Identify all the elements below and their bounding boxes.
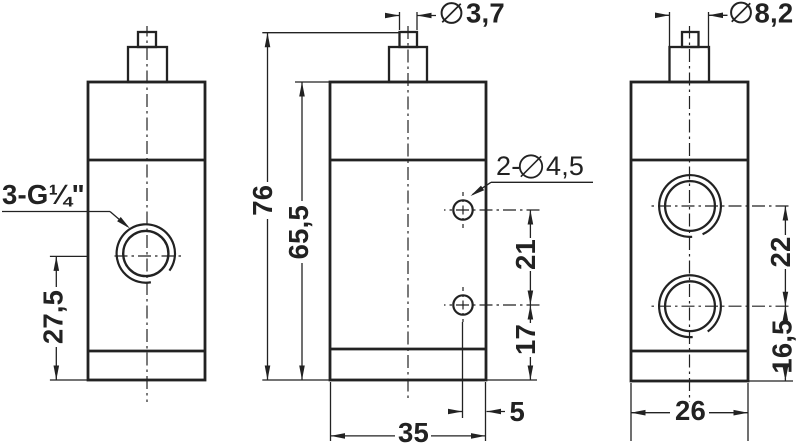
svg-text:76: 76: [247, 185, 278, 216]
left view lower section line: [88, 350, 205, 353]
middle view stem tip box: [400, 32, 418, 47]
middle view upper section line: [330, 159, 486, 162]
dimension line 26: [631, 412, 670, 414]
dimension line 16,5 upper stub: [784, 306, 786, 313]
svg-text:3-G¼": 3-G¼": [2, 179, 85, 210]
svg-text:5: 5: [510, 396, 526, 427]
svg-text:17: 17: [510, 324, 541, 355]
leader underline for 2-diameter 4,5: [491, 181, 593, 183]
leader line to upper hole: [473, 182, 492, 194]
arrowheads 21: [528, 210, 534, 225]
left view stem tip box: [138, 32, 156, 47]
leader arrowhead: [117, 217, 130, 229]
upper hole vertical centerline: [462, 192, 464, 228]
dimension line diameter 3,7 left part: [386, 15, 400, 17]
lower hole horizontal centerline: [444, 304, 540, 306]
leader arrowhead at upper hole: [471, 186, 485, 196]
arrowheads 26: [631, 410, 646, 416]
right view stem tip box: [682, 32, 699, 47]
right view stem lower box: [670, 47, 710, 82]
svg-text:35: 35: [398, 417, 429, 446]
dimension line diameter 8,2 left part: [656, 14, 670, 16]
extension line below lower hole for 5: [462, 322, 464, 418]
lower port inner circle: [665, 281, 715, 331]
svg-text:4,5: 4,5: [546, 151, 584, 181]
arrowheads 17: [528, 305, 534, 320]
left view upper section line: [88, 159, 205, 162]
svg-text:21: 21: [510, 239, 541, 270]
dimension line 65,5: [301, 82, 303, 201]
dimension line 27,5: [55, 256, 57, 287]
dimension line 21: [529, 210, 531, 238]
leader underline for 3-G1/4: [2, 211, 110, 213]
left view vertical centerline: [146, 26, 148, 402]
extension lines for diameter 8,2: [669, 12, 671, 50]
extension of body bottom to the right: [486, 379, 537, 381]
left view port inner circle: [123, 231, 168, 276]
lower hole vertical centerline: [462, 287, 464, 322]
svg-text:26: 26: [675, 395, 706, 426]
left view port thread arc: [117, 224, 175, 282]
mounting hole lower circle: [453, 295, 472, 314]
left view stem lower box: [128, 47, 167, 82]
leader line to port: [110, 212, 128, 227]
lower port thread arc: [659, 275, 721, 337]
diameter symbol of 8,2: [731, 3, 751, 23]
svg-text:65,5: 65,5: [283, 205, 314, 259]
arrowheads 5: [448, 409, 463, 415]
svg-text:22: 22: [765, 237, 796, 268]
upper port inner circle: [665, 181, 715, 231]
right view vertical centerline: [689, 26, 691, 402]
extension line at stem tip top for 76: [262, 32, 399, 34]
svg-text:8,2: 8,2: [755, 0, 794, 28]
right view upper section line: [631, 159, 748, 162]
middle view vertical centerline: [407, 26, 409, 400]
svg-text:2-: 2-: [496, 151, 520, 181]
arrowheads 76: [265, 33, 271, 48]
extension line left body edge down for 35: [330, 382, 332, 441]
dimension line diameter 3,7 right part: [417, 15, 436, 17]
extension line right body edge down for 35: [485, 382, 487, 441]
middle view stem lower box: [389, 47, 427, 82]
left view port horizontal centerline: [112, 255, 184, 257]
arrowheads 35: [331, 433, 346, 439]
diameter symbol of 4,5: [520, 155, 542, 177]
dimension line 16,5 lower stub: [784, 378, 786, 381]
dimension line diameter 8,2 right part: [709, 14, 728, 16]
arrowheads 65,5: [299, 82, 305, 97]
upper hole horizontal centerline: [444, 209, 540, 211]
lower port horizontal centerline: [648, 305, 793, 307]
arrowheads diameter 3,7: [385, 13, 400, 19]
extension of right body bottom to the right: [748, 380, 793, 382]
middle view lower section line: [330, 348, 486, 351]
right view lower section line: [631, 350, 748, 353]
extension line at body top for 65,5: [295, 81, 330, 83]
svg-text:16,5: 16,5: [766, 319, 797, 373]
extension line right edge down for 26: [747, 383, 749, 441]
left view body outline: [88, 82, 205, 380]
arrowheads diameter 8,2: [655, 13, 670, 19]
dimension line 5 with outside arrows: [450, 411, 463, 413]
dimension line 22: [784, 206, 786, 235]
extension lines for diameter 3,7: [399, 12, 401, 30]
arrowheads 22: [783, 206, 789, 221]
extension line at body bottom for 27,5: [50, 379, 89, 381]
extension of body bottom to the left: [262, 379, 330, 381]
arrowheads 16,5: [783, 306, 789, 321]
dimension line 17: [529, 305, 531, 323]
dimension line 35: [331, 435, 396, 437]
right view body outline: [631, 82, 748, 381]
svg-text:3,7: 3,7: [466, 0, 505, 28]
dimension line 76: [267, 33, 269, 182]
upper port thread arc: [659, 175, 721, 237]
extension line left edge down for 26: [630, 383, 632, 441]
diameter symbol of 3,7: [442, 3, 462, 23]
svg-text:27,5: 27,5: [37, 290, 68, 344]
upper port horizontal centerline: [648, 205, 793, 207]
extension line at port center for 27,5: [50, 255, 89, 257]
mounting hole upper circle: [453, 200, 472, 219]
middle view body outline: [330, 82, 486, 380]
arrowheads 27,5: [54, 256, 60, 271]
